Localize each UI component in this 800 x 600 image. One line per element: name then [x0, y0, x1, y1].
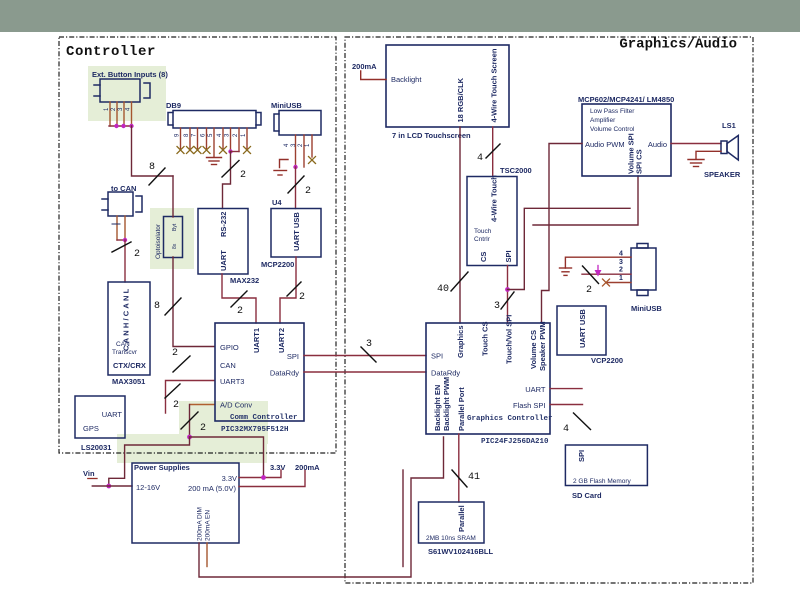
junction: [129, 124, 133, 128]
wire pin4 to ground: [565, 257, 631, 268]
wire MAX232 to UART1: [222, 274, 256, 323]
svg-text:CAN: CAN: [220, 361, 236, 370]
Controller dashed section border: [59, 37, 336, 453]
svg-text:2: 2: [172, 348, 178, 359]
wire U4 to UART2: [280, 257, 296, 323]
pin numbers 1-4: [104, 107, 132, 111]
wire flash SPI stub: [550, 404, 583, 406]
ground stub: [274, 160, 288, 176]
power supplies U7: [132, 463, 239, 543]
svg-text:SPI CS: SPI CS: [635, 149, 644, 174]
svg-text:UART: UART: [525, 385, 546, 394]
bus slash 2: [222, 161, 239, 178]
wire backlight EN stub: [206, 543, 208, 567]
svg-text:4-Wire Touch: 4-Wire Touch: [490, 175, 499, 222]
svg-text:200mA DIM: 200mA DIM: [197, 507, 204, 541]
svg-text:Touch/Vol SPI: Touch/Vol SPI: [505, 315, 514, 364]
svg-text:Controller: Controller: [66, 44, 156, 60]
wire A/D conv: [190, 404, 215, 406]
svg-text:3: 3: [494, 301, 500, 312]
svg-text:UART: UART: [102, 410, 123, 419]
ground miniusb: [560, 268, 572, 275]
bus slash 8: [165, 298, 181, 315]
svg-text:2: 2: [305, 186, 311, 197]
svg-text:MCP602/MCP4241/ LM4850: MCP602/MCP4241/ LM4850: [578, 95, 674, 104]
SRAM S61WV102416BLL: [419, 502, 485, 543]
svg-text:Vin: Vin: [83, 469, 95, 478]
GPS module LS20031: [75, 396, 125, 438]
svg-text:U4: U4: [272, 198, 282, 207]
svg-text:DataRdy: DataRdy: [431, 369, 460, 378]
wire Vin to power supply: [92, 485, 132, 487]
RS-232 level shifter MAX232: [198, 209, 248, 275]
svg-text:Power Supplies: Power Supplies: [134, 463, 190, 472]
svg-text:UART1: UART1: [252, 328, 261, 353]
DB9 pin numbers: [175, 133, 248, 137]
ground DB9 pin5: [207, 158, 222, 165]
svg-text:CS: CS: [479, 252, 488, 262]
svg-text:3.3V: 3.3V: [222, 474, 237, 483]
svg-text:Comm Controller: Comm Controller: [230, 414, 298, 422]
bus slash 2: [231, 291, 247, 307]
svg-text:RS-232: RS-232: [219, 212, 228, 237]
svg-text:MAX3051: MAX3051: [112, 377, 145, 386]
junction: [121, 124, 125, 128]
bus slash 2: [165, 384, 180, 398]
svg-text:4-Wire Touch Screen: 4-Wire Touch Screen: [490, 48, 499, 122]
comm controller U1 PIC32MX795F512H: [215, 323, 304, 421]
svg-text:UART USB: UART USB: [292, 212, 301, 251]
LCD touchscreen module: [386, 45, 509, 127]
SD card 2GB flash: [565, 445, 647, 486]
bus slash 4: [486, 144, 500, 158]
svg-text:Volume CS: Volume CS: [529, 330, 538, 369]
svg-text:Speaker PWM: Speaker PWM: [538, 321, 547, 371]
pin 1: [109, 102, 111, 126]
junction: [261, 475, 266, 480]
svg-text:SPI: SPI: [287, 352, 299, 361]
green highlight: power supplies area: [117, 434, 267, 463]
ground speaker: [688, 160, 704, 167]
svg-text:CAN: CAN: [116, 341, 130, 348]
bus slash 4: [574, 413, 591, 430]
green highlight: A/D comm controller area: [179, 401, 268, 444]
svg-text:SD Card: SD Card: [572, 491, 602, 500]
svg-text:2: 2: [200, 423, 206, 434]
wire UART stub: [550, 388, 582, 390]
bus slash 3: [501, 292, 514, 309]
svg-text:LS1: LS1: [722, 121, 736, 130]
svg-text:CTX/CRX: CTX/CRX: [113, 361, 146, 370]
bus slash 2: [583, 266, 599, 284]
svg-text:Touch: Touch: [474, 228, 492, 235]
bus slash 3: [361, 347, 376, 362]
svg-text:12-16V: 12-16V: [136, 483, 160, 492]
svg-text:GPIO: GPIO: [220, 343, 239, 352]
wire 200mA out: [239, 471, 305, 487]
no-connect X: [603, 279, 610, 286]
wire parallel port to SRAM: [458, 434, 460, 502]
optoisolator U2: [164, 217, 183, 258]
bus slash 41: [452, 470, 467, 487]
svg-text:Parallel Port: Parallel Port: [457, 387, 466, 431]
svg-text:2MB 10ns SRAM: 2MB 10ns SRAM: [426, 535, 476, 542]
connector MiniUSB (controller): [274, 111, 321, 136]
connector DB9: [168, 111, 261, 129]
wire backlight EN stub graphics side: [402, 470, 404, 567]
bus slash 2: [287, 282, 301, 296]
wire into optoisolator: [172, 176, 174, 217]
wire MiniUSB to U4: [295, 167, 297, 209]
no-connect X marks: [177, 147, 251, 154]
svg-text:4: 4: [477, 153, 483, 164]
junction: [123, 238, 127, 242]
wire optoisolator to GPIO: [173, 257, 215, 347]
svg-text:2: 2: [134, 249, 140, 260]
wire A/D vertical: [189, 405, 191, 438]
wire 3.3V out: [239, 470, 281, 478]
wire speaker PWM to audio in: [542, 144, 583, 324]
svg-text:40: 40: [437, 284, 449, 295]
top slide bar: [0, 0, 800, 32]
svg-text:MiniUSB: MiniUSB: [271, 101, 302, 110]
wire buttons to optoisolator: [132, 126, 174, 176]
svg-text:PIC32MX795F512H: PIC32MX795F512H: [221, 426, 289, 434]
svg-text:UART: UART: [219, 250, 228, 271]
junction: [293, 165, 297, 169]
svg-text:VCP2200: VCP2200: [591, 356, 623, 365]
wire button bus: [109, 125, 132, 127]
wire SPI to graphics controller: [304, 355, 426, 357]
svg-text:Amplifier: Amplifier: [590, 117, 616, 124]
svg-text:2: 2: [586, 285, 592, 296]
wire A/D to 3.3V rail: [190, 437, 264, 478]
wire DB9 pins 2-3 join: [231, 151, 240, 153]
no-connect X: [309, 157, 316, 164]
junction: [187, 435, 192, 440]
wire touch screen to TSC2000: [492, 127, 494, 177]
connector J1 ext buttons: [94, 79, 150, 102]
svg-text:SPI: SPI: [431, 352, 443, 361]
svg-text:2: 2: [173, 400, 179, 411]
svg-text:41: 41: [468, 472, 480, 483]
junction: [106, 484, 111, 489]
wire audio out to speaker: [671, 143, 721, 145]
wire DataRdy to graphics controller: [304, 371, 426, 373]
net pointer: [597, 266, 599, 271]
wire UART3 from GPS: [166, 381, 215, 414]
svg-text:UART USB: UART USB: [578, 309, 587, 348]
wire graphics bus LCD to controller: [459, 127, 461, 323]
svg-text:Volume Control: Volume Control: [590, 126, 635, 133]
svg-text:SPI: SPI: [577, 450, 586, 462]
pin 4: [131, 102, 133, 126]
bus slash 40: [451, 272, 468, 291]
svg-text:Audio PWM: Audio PWM: [585, 140, 625, 149]
wire speaker to ground: [696, 151, 721, 159]
svg-text:200 mA (5.0V): 200 mA (5.0V): [188, 484, 236, 493]
wire volume SPI stub: [533, 176, 638, 225]
svg-text:TSC2000: TSC2000: [500, 166, 532, 175]
junction: [114, 124, 118, 128]
pin numbers 4..1: [284, 143, 311, 147]
bus slash 2 (CTX/CRX net): [173, 356, 190, 372]
svg-text:3.3V: 3.3V: [270, 463, 285, 472]
green highlight: optoisolator: [150, 208, 194, 269]
svg-text:1: 1: [619, 275, 623, 282]
graphics controller U3 PIC24FJ256DA210: [426, 323, 550, 434]
svg-text:4: 4: [563, 424, 569, 435]
wire backlight DIM to graphics: [199, 437, 444, 577]
pin 2: [116, 102, 118, 126]
wire join: [117, 239, 125, 241]
USB UART VCP2200: [557, 306, 606, 355]
pin 3: [123, 102, 125, 126]
svg-text:7 in LCD Touchscreen: 7 in LCD Touchscreen: [392, 131, 471, 140]
svg-text:4: 4: [619, 251, 623, 258]
svg-text:PIC24FJ256DA210: PIC24FJ256DA210: [481, 438, 549, 446]
svg-text:Backlight EN: Backlight EN: [433, 385, 442, 431]
svg-text:Audio: Audio: [648, 140, 667, 149]
svg-text:GPS: GPS: [83, 424, 99, 433]
pin numbers: [619, 251, 623, 283]
bus slash 8: [149, 168, 165, 185]
junction: [505, 287, 510, 292]
svg-text:UART2: UART2: [277, 328, 286, 353]
DB9 pins 9..1: [181, 128, 248, 157]
connector to CAN: [102, 192, 142, 216]
bus slash 2: [181, 412, 198, 429]
svg-text:MAX232: MAX232: [230, 276, 259, 285]
pin 1: [116, 216, 118, 240]
svg-text:LS20031: LS20031: [81, 443, 111, 452]
svg-text:SPI: SPI: [504, 250, 513, 262]
svg-text:18 RGB/CLK: 18 RGB/CLK: [456, 77, 465, 122]
svg-text:3: 3: [619, 259, 623, 266]
svg-text:Graphics/Audio: Graphics/Audio: [619, 37, 737, 53]
svg-text:Backlight: Backlight: [391, 75, 422, 84]
svg-text:2: 2: [299, 292, 305, 303]
svg-text:Flash SPI: Flash SPI: [513, 401, 546, 410]
svg-text:Graphics Controller: Graphics Controller: [467, 415, 553, 423]
svg-text:DB9: DB9: [166, 101, 181, 110]
svg-text:Cntrlr: Cntrlr: [474, 236, 491, 243]
wire DB9 to MAX232: [223, 152, 231, 209]
connector MiniUSB (graphics): [631, 244, 656, 296]
svg-text:8: 8: [154, 301, 160, 312]
svg-text:Low Pass Filter: Low Pass Filter: [590, 108, 635, 115]
svg-text:UART3: UART3: [220, 377, 244, 386]
svg-text:MCP2200: MCP2200: [261, 260, 294, 269]
svg-text:8: 8: [149, 162, 155, 173]
svg-text:Graphics: Graphics: [456, 325, 465, 358]
svg-text:MiniUSB: MiniUSB: [631, 304, 662, 313]
wire SPI branch to volume pot: [508, 208, 631, 289]
bus slash 2: [112, 242, 131, 252]
svg-text:Backlight PWM: Backlight PWM: [442, 377, 451, 431]
wire A/D to Vin rail: [109, 437, 190, 486]
svg-text:2: 2: [240, 170, 246, 181]
svg-text:SPEAKER: SPEAKER: [704, 170, 741, 179]
svg-text:200mA EN: 200mA EN: [205, 510, 212, 541]
svg-text:2: 2: [619, 267, 623, 274]
svg-text:Parallel: Parallel: [457, 505, 466, 532]
junction DB9 pin3: [228, 149, 232, 153]
svg-text:Byt: Byt: [172, 223, 178, 231]
svg-text:Transcvr: Transcvr: [112, 349, 138, 356]
svg-text:2 GB Flash Memory: 2 GB Flash Memory: [573, 478, 632, 485]
svg-text:S61WV102416BLL: S61WV102416BLL: [428, 547, 493, 556]
wire to CAN transceiver: [124, 240, 126, 282]
svg-text:2: 2: [237, 306, 243, 317]
Graphics/Audio dashed section border: [345, 37, 753, 583]
wire pin1 no connect: [606, 282, 631, 284]
bus slash 2: [288, 176, 304, 193]
svg-text:3: 3: [366, 339, 372, 350]
wire 200mA to backlight: [361, 71, 386, 80]
pin 2: [124, 216, 126, 240]
svg-text:A/D Conv: A/D Conv: [220, 401, 252, 410]
green highlight: ext button inputs: [88, 66, 166, 121]
pin tick: [112, 223, 120, 225]
svg-text:200mA: 200mA: [295, 463, 320, 472]
CAN transceiver U5 MAX3051: [108, 282, 150, 375]
svg-text:Ext. Button Inputs (8): Ext. Button Inputs (8): [92, 70, 168, 79]
svg-text:Optoisolator: Optoisolator: [155, 223, 162, 259]
pins: [296, 135, 313, 167]
svg-text:8x: 8x: [172, 243, 178, 249]
svg-text:200mA: 200mA: [352, 62, 377, 71]
svg-text:DataRdy: DataRdy: [270, 369, 299, 378]
wire TSC2000 SPI to controller: [507, 266, 509, 324]
wire pin2 data: [582, 273, 631, 275]
svg-text:Touch CS: Touch CS: [481, 322, 490, 356]
